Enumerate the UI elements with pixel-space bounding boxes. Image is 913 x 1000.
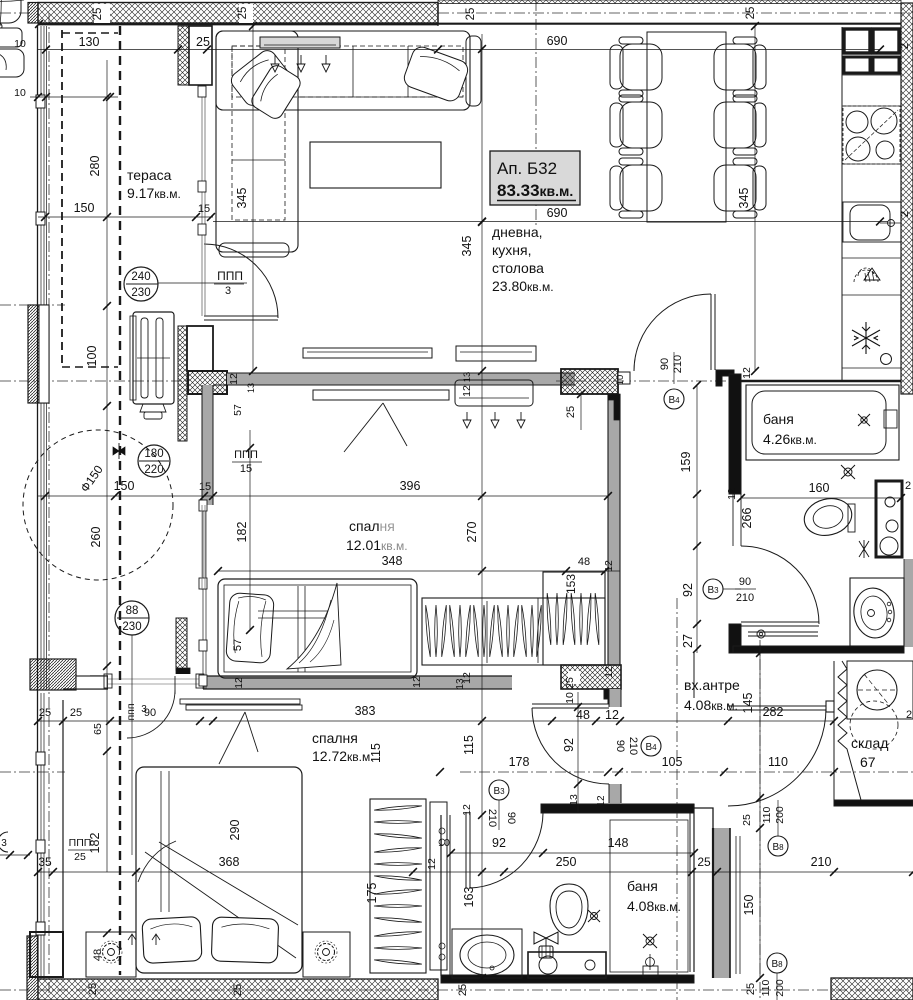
svg-text:25: 25 [697, 855, 711, 869]
svg-text:90: 90 [739, 576, 751, 588]
svg-text:10: 10 [564, 692, 576, 704]
svg-text:B3: B3 [493, 786, 505, 797]
svg-text:230: 230 [122, 621, 141, 633]
svg-text:150: 150 [74, 201, 95, 215]
svg-text:4.08кв.м.: 4.08кв.м. [684, 697, 738, 713]
svg-text:67: 67 [860, 754, 876, 770]
svg-text:12: 12 [603, 666, 615, 678]
svg-text:25: 25 [745, 7, 757, 20]
svg-text:396: 396 [400, 479, 421, 493]
svg-text:баня: баня [763, 411, 794, 427]
svg-text:48: 48 [578, 556, 590, 568]
svg-text:2: 2 [906, 709, 912, 721]
svg-text:270: 270 [465, 522, 479, 543]
svg-text:B4: B4 [645, 742, 657, 753]
svg-text:180: 180 [144, 448, 163, 460]
svg-text:12: 12 [596, 795, 607, 807]
svg-text:159: 159 [679, 452, 693, 473]
svg-text:12: 12 [228, 373, 240, 385]
svg-text:210: 210 [486, 809, 498, 827]
svg-text:4.08кв.м.: 4.08кв.м. [627, 898, 681, 914]
svg-text:спалня: спалня [312, 730, 358, 746]
svg-text:10: 10 [14, 38, 26, 50]
svg-text:182: 182 [88, 833, 102, 854]
svg-text:B8: B8 [771, 959, 783, 970]
svg-text:160: 160 [809, 481, 830, 495]
svg-text:92: 92 [562, 738, 576, 752]
svg-text:B3: B3 [707, 585, 719, 596]
svg-text:210: 210 [627, 737, 639, 755]
svg-text:153: 153 [564, 574, 578, 594]
svg-text:склад: склад [851, 735, 888, 751]
svg-text:25: 25 [74, 851, 86, 863]
svg-text:100: 100 [85, 346, 99, 367]
svg-text:200: 200 [774, 979, 786, 997]
svg-text:345: 345 [460, 236, 474, 257]
svg-text:13: 13 [246, 383, 256, 393]
svg-text:12: 12 [461, 385, 473, 397]
svg-text:88: 88 [126, 605, 139, 617]
svg-text:290: 290 [228, 820, 242, 841]
svg-text:B8: B8 [772, 842, 784, 853]
svg-text:10: 10 [438, 837, 450, 849]
svg-text:200: 200 [774, 806, 786, 824]
svg-text:210: 210 [811, 855, 832, 869]
svg-text:175: 175 [365, 883, 379, 904]
svg-text:столова: столова [492, 260, 544, 276]
svg-text:13: 13 [568, 794, 580, 806]
svg-text:210: 210 [672, 355, 684, 373]
svg-text:266: 266 [740, 508, 754, 529]
svg-text:25: 25 [196, 35, 210, 49]
svg-text:345: 345 [737, 188, 751, 209]
svg-text:57: 57 [232, 639, 244, 651]
svg-text:150: 150 [114, 479, 135, 493]
svg-text:10: 10 [14, 87, 26, 99]
svg-text:90: 90 [614, 740, 626, 752]
svg-text:13: 13 [455, 678, 466, 690]
svg-text:178: 178 [509, 755, 530, 769]
svg-text:15: 15 [240, 463, 252, 475]
svg-text:110: 110 [760, 979, 772, 996]
svg-text:27: 27 [681, 634, 695, 648]
svg-text:12: 12 [605, 708, 619, 722]
svg-text:115: 115 [462, 735, 476, 755]
svg-text:тераса: тераса [127, 167, 172, 183]
svg-text:48: 48 [92, 949, 104, 961]
svg-text:35: 35 [38, 855, 52, 869]
svg-text:ппп: ппп [125, 703, 137, 720]
svg-text:вх.антре: вх.антре [684, 677, 740, 693]
svg-text:15: 15 [198, 203, 210, 215]
svg-text:92: 92 [681, 583, 695, 597]
svg-text:83.33кв.м.: 83.33кв.м. [497, 181, 573, 200]
svg-text:25: 25 [92, 8, 104, 21]
svg-text:3: 3 [1, 838, 7, 849]
svg-text:110: 110 [768, 755, 788, 769]
svg-text:12.01кв.м.: 12.01кв.м. [346, 537, 408, 553]
svg-text:4.26кв.м.: 4.26кв.м. [763, 431, 817, 447]
svg-text:25: 25 [565, 406, 577, 418]
svg-text:65: 65 [92, 723, 104, 735]
svg-text:15: 15 [199, 481, 211, 493]
svg-text:148: 148 [608, 836, 629, 850]
svg-text:12.72кв.м.: 12.72кв.м. [312, 748, 374, 764]
svg-text:12: 12 [234, 677, 245, 689]
svg-text:23.80кв.м.: 23.80кв.м. [492, 278, 554, 294]
svg-text:2: 2 [899, 43, 911, 49]
svg-text:12: 12 [726, 488, 738, 500]
svg-text:10: 10 [615, 375, 626, 386]
svg-text:9.17кв.м.: 9.17кв.м. [127, 185, 181, 201]
svg-text:B4: B4 [668, 395, 680, 406]
svg-text:690: 690 [547, 206, 568, 220]
svg-text:260: 260 [89, 527, 103, 548]
svg-text:Ап. Б32: Ап. Б32 [497, 159, 557, 178]
svg-text:25: 25 [237, 7, 249, 20]
svg-text:12: 12 [461, 804, 473, 816]
svg-text:163: 163 [462, 887, 476, 908]
svg-text:230: 230 [131, 287, 150, 299]
svg-text:57: 57 [232, 404, 244, 416]
svg-text:25: 25 [745, 983, 757, 995]
svg-text:25: 25 [87, 983, 99, 995]
svg-text:3: 3 [225, 285, 231, 297]
svg-text:90: 90 [659, 358, 671, 370]
svg-text:690: 690 [547, 34, 568, 48]
svg-text:220: 220 [144, 464, 163, 476]
svg-text:25: 25 [232, 984, 244, 996]
svg-text:дневна,: дневна, [492, 224, 543, 240]
svg-text:345: 345 [235, 188, 249, 209]
svg-text:ППП: ППП [234, 449, 258, 461]
svg-text:ППП: ППП [217, 269, 243, 283]
svg-text:90: 90 [505, 812, 517, 824]
svg-text:25: 25 [465, 8, 477, 21]
svg-text:210: 210 [736, 592, 754, 604]
svg-text:145: 145 [741, 693, 755, 714]
svg-text:348: 348 [382, 554, 403, 568]
svg-text:25: 25 [457, 984, 469, 996]
svg-text:12: 12 [741, 367, 753, 379]
svg-text:130: 130 [79, 35, 100, 49]
svg-text:92: 92 [492, 836, 506, 850]
svg-text:280: 280 [88, 156, 102, 177]
svg-text:150: 150 [742, 895, 756, 916]
svg-text:240: 240 [131, 271, 150, 283]
svg-text:12: 12 [411, 676, 423, 688]
svg-text:110: 110 [761, 806, 773, 823]
svg-text:кухня,: кухня, [492, 242, 531, 258]
svg-text:13: 13 [462, 372, 473, 383]
svg-text:баня: баня [627, 878, 658, 894]
svg-text:182: 182 [235, 522, 249, 543]
svg-text:спалня: спалня [349, 518, 395, 534]
svg-text:25: 25 [70, 707, 82, 719]
svg-text:25: 25 [741, 814, 753, 826]
svg-text:25: 25 [39, 707, 51, 719]
svg-text:3: 3 [141, 704, 147, 715]
svg-text:383: 383 [355, 704, 376, 718]
svg-text:282: 282 [763, 705, 784, 719]
svg-text:12: 12 [603, 560, 615, 572]
svg-text:2: 2 [905, 480, 911, 492]
svg-text:2: 2 [899, 211, 911, 217]
svg-text:368: 368 [219, 855, 240, 869]
svg-text:25: 25 [564, 677, 576, 689]
svg-text:250: 250 [556, 855, 577, 869]
svg-text:105: 105 [662, 755, 683, 769]
svg-text:12: 12 [426, 858, 438, 870]
